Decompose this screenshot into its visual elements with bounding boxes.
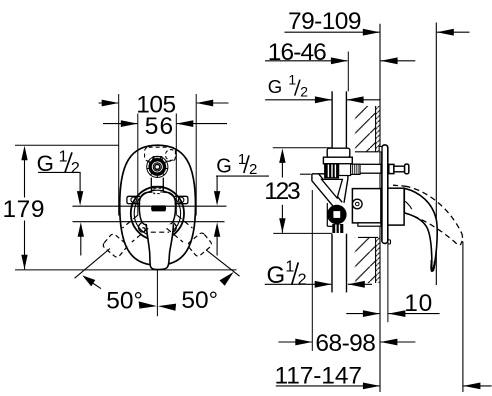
svg-text:79-109: 79-109 — [288, 8, 362, 35]
hex nut — [325, 164, 339, 178]
outlet tube through wall — [355, 164, 382, 173]
svg-text:68-98: 68-98 — [315, 330, 376, 357]
svg-text:2: 2 — [300, 84, 308, 100]
service valve — [327, 203, 347, 226]
handle hub — [388, 188, 404, 225]
dashed lever edge left inner — [132, 228, 148, 242]
dashed box in column — [154, 188, 161, 193]
dimension 16-46 — [265, 39, 415, 66]
dimension 179 — [3, 145, 237, 270]
union collar — [327, 148, 350, 157]
outlet stub shaft — [394, 166, 405, 172]
knurling ticks on knob — [146, 157, 168, 178]
dashed concealed body outline — [145, 147, 176, 161]
50 deg leader arrow left — [82, 275, 101, 288]
plate bottom nub — [388, 240, 391, 244]
svg-text:1: 1 — [288, 71, 296, 87]
center line below lever — [156, 270, 158, 317]
angle vertex arrows — [139, 301, 176, 310]
svg-text:1: 1 — [285, 259, 294, 276]
cartridge housing — [352, 189, 381, 223]
svg-text:56: 56 — [145, 113, 174, 140]
handle inner crease — [405, 201, 412, 209]
svg-text:G: G — [216, 156, 232, 178]
bracket cutout — [322, 179, 343, 198]
dimension 10 — [346, 290, 439, 317]
cartridge ring — [353, 199, 363, 209]
dashed handle outer — [405, 186, 462, 233]
supply pipe bottom — [332, 234, 347, 293]
svg-text:2: 2 — [298, 271, 307, 288]
outlet stub ring — [389, 164, 394, 173]
left curl detail — [138, 223, 145, 232]
label G1/2 top with arrows — [265, 71, 380, 103]
svg-text:50°: 50° — [106, 287, 143, 314]
extension line body left — [311, 190, 313, 351]
plate top step — [379, 147, 382, 152]
label G1/2 mid with leader — [214, 151, 269, 206]
svg-text:G: G — [267, 262, 286, 289]
dashed handle inner — [404, 213, 459, 246]
svg-text:1: 1 — [238, 151, 246, 168]
diverter knob circles — [147, 156, 168, 177]
svg-text:1: 1 — [59, 149, 68, 166]
dimension 123 — [264, 148, 332, 234]
dashed line across lever — [151, 231, 169, 233]
dashed handle tip reference line — [462, 242, 464, 393]
escutcheon plate side — [382, 145, 388, 244]
dashed lever tip right — [187, 232, 213, 258]
valve stub hex — [332, 224, 343, 233]
lever axis line left — [75, 249, 110, 279]
body right of nut — [339, 164, 351, 176]
dashed lever edge left outer — [122, 215, 137, 228]
svg-text:2: 2 — [71, 160, 80, 177]
escutcheon oval — [120, 145, 196, 265]
label G1/2 left with leader — [37, 149, 84, 206]
threaded stub — [351, 164, 360, 174]
lever axis line right — [206, 250, 240, 276]
dimension 79-109 — [285, 8, 470, 36]
handle tip reference line — [435, 23, 437, 286]
extension line 56 right — [175, 114, 177, 216]
right curl detail — [170, 223, 177, 232]
handle lever side — [404, 188, 437, 271]
housing foot — [358, 223, 381, 226]
wall hatch upper — [355, 106, 380, 152]
svg-text:50°: 50° — [181, 287, 218, 314]
wall hatch lower — [355, 237, 380, 283]
dashed lever tip left — [102, 233, 128, 259]
bracket frame — [312, 174, 348, 210]
extension line pipe right — [347, 52, 349, 92]
supply pipe top — [332, 91, 346, 148]
outlet mouth — [151, 205, 166, 211]
wall surface reference line — [379, 24, 381, 392]
svg-text:123: 123 — [264, 178, 301, 205]
extension line 105 left — [118, 94, 120, 216]
dimension 56 — [103, 113, 227, 140]
knob top flange — [152, 157, 162, 162]
dimension 105 — [99, 91, 229, 118]
handle dome inner circle — [134, 190, 180, 236]
stray pointer segment to body — [300, 173, 311, 175]
extension line 105 right — [195, 94, 197, 216]
dashed lever edge right inner — [167, 228, 183, 242]
tee block — [323, 157, 352, 164]
svg-text:G: G — [268, 76, 282, 97]
50 deg leader arrow right — [220, 272, 234, 286]
lever shaft — [146, 224, 173, 270]
lever cap front face — [139, 187, 175, 227]
up arrow right at lower centerline — [214, 222, 220, 255]
mounting tab left — [127, 196, 140, 203]
label G1/2 bottom with arrows — [265, 259, 372, 290]
outlet stub cap — [405, 164, 409, 174]
extension line plate front — [387, 244, 389, 322]
dashed hub top — [393, 185, 405, 186]
svg-text:2: 2 — [249, 161, 257, 178]
dimension 117-147 — [275, 363, 492, 390]
up arrow left at lower centerline — [78, 222, 84, 255]
column below knob — [150, 178, 152, 189]
extension line 56 left — [137, 114, 139, 216]
dashed handle tip — [459, 234, 462, 247]
dashed boss circle — [165, 150, 176, 161]
svg-text:179: 179 — [3, 196, 45, 223]
centerline lower (outlet axis) — [73, 221, 225, 223]
dimension 68-98 — [278, 330, 415, 357]
mounting tab right — [175, 196, 188, 203]
handle dome outer circle — [131, 187, 184, 240]
centerline upper (supply axis) — [73, 205, 227, 207]
svg-text:16-46: 16-46 — [268, 39, 327, 66]
handle tip emphasis — [431, 260, 435, 271]
dashed lever edge right outer — [177, 215, 192, 228]
